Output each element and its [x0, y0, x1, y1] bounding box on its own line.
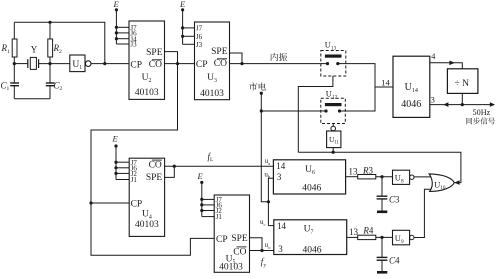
inverter U8 — [393, 170, 410, 184]
resistor R4 — [358, 235, 376, 239]
terminal E dot U4 — [114, 144, 117, 147]
svg-text:50Hz: 50Hz — [473, 108, 491, 117]
wire R3 to U8 — [376, 176, 393, 178]
node A R1/Y/C1 — [13, 62, 16, 65]
wire J1 stub U4 — [116, 179, 129, 181]
inverter U9 — [393, 230, 410, 245]
node U4 CO junction — [173, 165, 176, 168]
wire J7 stub U3 — [183, 27, 195, 29]
counter U5 40103 box — [214, 195, 249, 272]
resistor R1 — [12, 39, 17, 57]
wire oscillator bottom — [14, 98, 50, 100]
svg-text:14: 14 — [277, 221, 287, 231]
wire node A to crystal — [14, 63, 27, 65]
wire J1 stub U5 — [202, 216, 214, 218]
wire pin 4 out — [430, 63, 463, 69]
svg-text:CP: CP — [131, 200, 143, 210]
node B R2/Y/C2 — [48, 62, 51, 65]
wire J3 stub U2 — [116, 43, 129, 45]
wire U5 SPE tie — [250, 238, 263, 251]
wire E bus U5 — [201, 182, 203, 216]
node clock branch to U4 CP — [89, 201, 92, 204]
wire U1 output to U2 CP — [91, 63, 129, 65]
wire J6 stub U4 — [116, 167, 129, 169]
switch U13 contact bar — [325, 55, 341, 58]
svg-text:SPE: SPE — [231, 234, 248, 244]
wire U7 pin14 stub — [268, 225, 273, 227]
wire J7 stub U4 — [116, 161, 129, 163]
wire divN to pin3 — [461, 93, 463, 104]
wire U13 control — [298, 76, 333, 152]
wire U13 out to pin14 net — [346, 64, 375, 87]
svg-text:CO: CO — [233, 247, 246, 257]
svg-text:J7: J7 — [196, 25, 203, 33]
wire U2 SPE tie — [165, 52, 178, 64]
ground C4 — [377, 271, 387, 274]
wire U2 CO to U3 CP — [165, 63, 195, 65]
svg-text:J3: J3 — [130, 41, 137, 49]
svg-text:J6: J6 — [196, 33, 203, 41]
node pin3 junction — [461, 103, 464, 106]
wire J4 stub U2 — [116, 38, 129, 40]
wire pin 3 — [430, 104, 494, 106]
wire J6 stub U5 — [202, 204, 214, 206]
inverter U11 box — [327, 131, 341, 148]
wire mains bus — [261, 93, 268, 202]
capacitor C4 — [381, 237, 383, 257]
resistor R2 — [48, 39, 53, 57]
capacitor C3 — [381, 177, 383, 197]
svg-text:E: E — [179, 0, 186, 9]
svg-text:J1: J1 — [131, 176, 138, 184]
svg-text:13: 13 — [349, 166, 359, 176]
node U5 CO junction — [260, 249, 263, 252]
svg-text:CO: CO — [149, 160, 162, 170]
svg-text:J3: J3 — [196, 41, 203, 49]
svg-text:CP: CP — [130, 61, 142, 71]
wire U12 out to pin14 net — [345, 87, 375, 111]
wire U6 pin3 riser — [268, 178, 273, 225]
terminal E dot U2 — [115, 8, 118, 11]
svg-text:E: E — [112, 133, 119, 143]
svg-text:J1: J1 — [216, 213, 223, 221]
pll U6 4046 box — [273, 160, 345, 194]
wire U8 to U10 input — [414, 176, 432, 178]
svg-text:R3: R3 — [362, 165, 374, 175]
wire U7 pin13 out — [347, 236, 358, 238]
svg-text:SPE: SPE — [146, 48, 163, 58]
counter U2 40103 box — [129, 21, 165, 99]
wire switch control net — [298, 152, 461, 182]
arrow pin3 left — [443, 102, 448, 107]
capacitor C2 — [49, 64, 51, 83]
wire J6 stub U2 — [116, 32, 129, 34]
arrow pin4 right — [449, 61, 454, 66]
svg-text:CO: CO — [214, 59, 227, 69]
svg-text:SPE: SPE — [211, 47, 228, 57]
wire U4 SPE tie — [165, 166, 175, 177]
node U1 output junction — [103, 62, 106, 65]
label neizhen — [271, 53, 278, 61]
arrow 50Hz out — [490, 102, 495, 107]
node R4 C4 junction — [380, 236, 383, 239]
terminal E dot U3 — [181, 8, 184, 11]
wire J6 stub U3 — [183, 35, 195, 37]
svg-text:40103: 40103 — [219, 263, 243, 273]
wire U3 CO to U13 — [230, 63, 321, 65]
wire E bus U2 — [115, 10, 117, 44]
wire U11 input — [332, 148, 334, 153]
node mains junction to U6 pin3 — [267, 200, 270, 203]
wire J2 stub U5 — [202, 210, 214, 212]
svg-text:4046: 4046 — [302, 184, 321, 194]
wire U4 CO fL to U6 pin14 — [165, 165, 274, 167]
svg-text:4046: 4046 — [303, 246, 322, 256]
wire R4 to U9 — [376, 236, 393, 238]
wire E bus U4 — [115, 146, 117, 180]
svg-text:4046: 4046 — [401, 99, 421, 110]
node U11 input junction — [332, 151, 335, 154]
switch U12 contact bar — [325, 103, 341, 106]
svg-text:Y: Y — [31, 45, 38, 55]
wire J3 stub U3 — [183, 43, 195, 45]
svg-text:CO: CO — [149, 60, 162, 70]
svg-text:CP: CP — [216, 235, 228, 245]
wire master clock bus — [91, 64, 214, 256]
label shidian — [249, 83, 257, 91]
svg-text:14: 14 — [276, 161, 286, 171]
label sync signal — [466, 118, 472, 125]
inverter U11 bubble — [331, 126, 336, 131]
svg-text:40103: 40103 — [135, 88, 159, 98]
svg-text:C4: C4 — [389, 256, 400, 266]
terminal dot shidian — [260, 92, 263, 95]
wire U3 SPE tie — [230, 53, 243, 64]
or-gate U10 — [429, 174, 454, 192]
pll U7 4046 box — [274, 220, 347, 255]
switch U13 dashed box — [321, 51, 346, 77]
divider box divN — [447, 69, 478, 94]
node top wire / R2 — [48, 21, 51, 24]
wire mains to U12 switch — [261, 110, 326, 112]
wire oscillator feedback top — [14, 22, 105, 63]
wire J7 stub U5 — [202, 198, 214, 200]
wire U5 CO to U7 pin3 — [250, 250, 274, 252]
svg-text:13: 13 — [349, 227, 359, 237]
node R3 C3 junction — [380, 175, 383, 178]
wire E bus U3 — [182, 10, 184, 45]
svg-text:3: 3 — [431, 96, 435, 105]
node mains to U12 — [260, 109, 263, 112]
svg-text:4: 4 — [431, 52, 435, 61]
wire U9 to U10 input — [414, 189, 432, 237]
svg-text:÷ N: ÷ N — [455, 79, 470, 89]
svg-text:E: E — [113, 0, 120, 9]
inverter U1 — [70, 55, 85, 72]
switch U12 dashed box — [321, 98, 346, 123]
wire U12 control stub — [332, 124, 334, 127]
wire J7 stub U2 — [116, 26, 129, 28]
ground C3 — [377, 211, 387, 214]
counter U4 40103 box — [129, 158, 164, 236]
wire U6 pin13 out — [346, 176, 358, 178]
svg-text:3: 3 — [278, 244, 283, 254]
crystal Y — [27, 59, 29, 68]
switch U12 terminals — [324, 109, 327, 112]
svg-text:40103: 40103 — [135, 220, 159, 230]
node U2 CO junction — [176, 62, 179, 65]
svg-text:40103: 40103 — [200, 89, 224, 99]
terminal E dot U5 — [200, 181, 203, 184]
svg-text:3: 3 — [277, 172, 282, 182]
wire pin14 net to U14 — [375, 86, 393, 88]
wire clock to U4 CP — [91, 202, 129, 204]
counter U3 40103 box — [195, 22, 230, 100]
svg-text:CP: CP — [196, 60, 208, 70]
arrow into U10 output — [454, 180, 459, 185]
resistor R3 — [358, 175, 376, 179]
svg-text:R4: R4 — [362, 225, 374, 235]
svg-text:14: 14 — [381, 77, 390, 87]
capacitor C1 — [13, 64, 15, 83]
pll U14 4046 box — [393, 56, 430, 117]
svg-text:SPE: SPE — [146, 173, 163, 183]
svg-text:E: E — [197, 171, 204, 181]
switch U13 terminals — [326, 62, 329, 65]
wire J2 stub U4 — [116, 172, 129, 174]
wire crystal to U1 input — [39, 63, 70, 65]
node U3 CO junction — [240, 62, 243, 65]
svg-text:C3: C3 — [389, 195, 400, 205]
